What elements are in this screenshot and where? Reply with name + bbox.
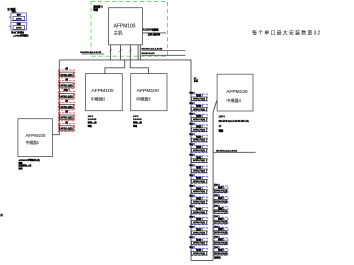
svg-text:中继器1: 中继器1 <box>26 139 40 146</box>
svg-text:AFRD-F1(A): AFRD-F1(A) <box>215 210 227 213</box>
svg-text:2.5-SC20: 2.5-SC20 <box>88 119 97 121</box>
wire: branch to repeater 3 <box>130 60 148 74</box>
svg-text:AFRD-F1(A): AFRD-F1(A) <box>193 108 205 111</box>
blue door module L10 <box>189 183 207 193</box>
repeater U5 AFPM100 中继器1 <box>18 119 53 157</box>
blue door module R1 <box>214 183 228 193</box>
wire: right loop bus up <box>212 112 214 261</box>
blue door module R6 <box>214 235 228 245</box>
svg-text:AFRD-F1(A): AFRD-F1(A) <box>215 241 227 244</box>
blue door module L9 <box>189 173 207 183</box>
svg-text:AFRD: AFRD <box>16 18 22 21</box>
svg-text:AFRD-2(B): AFRD-2(B) <box>60 74 72 77</box>
blue door module L14 <box>189 225 207 235</box>
blue door module L5 <box>189 132 207 142</box>
red door module M2 <box>59 77 75 88</box>
wire label right branch 1 <box>142 48 186 50</box>
svg-text:AFRD-F1(A): AFRD-F1(A) <box>193 242 205 245</box>
repeater U2 AFPM100 中继器2 <box>85 74 122 111</box>
blue door module L4 <box>189 122 207 132</box>
room boundary 消防控制室 (green dashed) <box>91 2 168 57</box>
svg-text:AFRD-F1(A): AFRD-F1(A) <box>193 221 205 224</box>
wire: branch to repeater 2 <box>105 60 125 74</box>
wire: bottom U-turn <box>191 259 213 261</box>
svg-text:1AT-4: 1AT-4 <box>219 115 226 118</box>
svg-text:AFRD-F1(A): AFRD-F1(A) <box>193 149 205 152</box>
feeder to next zone <box>213 150 256 152</box>
svg-text:AFRD-2(B): AFRD-2(B) <box>60 117 72 120</box>
svg-text:AFRD-F1(A): AFRD-F1(A) <box>193 118 205 121</box>
svg-text:中继器3: 中继器3 <box>136 95 151 102</box>
wire label left branch <box>80 52 104 54</box>
repeater U3 AFPM100 中继器3 <box>131 74 167 111</box>
blue door module L3 <box>189 111 207 121</box>
repeater U4 AFPM100 中继器4 notes <box>219 115 250 132</box>
svg-text:AFRD-F1(A): AFRD-F1(A) <box>193 190 205 193</box>
svg-text:AFRD-F1(A): AFRD-F1(A) <box>215 252 227 255</box>
wire: diagonal into repeater 4 <box>213 100 217 112</box>
blue door module L12 <box>189 204 207 214</box>
blue door module L15 <box>189 235 207 245</box>
blue door module L2 <box>189 101 207 111</box>
main unit U1 AFPM100 主机 <box>109 8 143 45</box>
legend stub 1 <box>9 16 11 18</box>
svg-text:AFRD-2(B): AFRD-2(B) <box>60 85 72 88</box>
red door module M4 <box>59 99 75 110</box>
blue door module L13 <box>189 214 207 224</box>
svg-text:AFRD-F1(A): AFRD-F1(A) <box>215 189 227 192</box>
room label <box>92 4 103 11</box>
svg-text:明装: 明装 <box>93 8 98 12</box>
wire: main horizontal bus <box>59 59 191 61</box>
svg-text:AFPM100: AFPM100 <box>26 133 46 139</box>
svg-text:主机: 主机 <box>114 29 123 36</box>
legend note text <box>7 7 16 13</box>
svg-text:AFPM100: AFPM100 <box>226 89 248 95</box>
svg-text:AFRD-2(B): AFRD-2(B) <box>60 106 72 109</box>
svg-text:AFRD-F1(A): AFRD-F1(A) <box>193 252 205 255</box>
svg-text:AFRD-F1(A): AFRD-F1(A) <box>215 231 227 234</box>
blue door module L7 <box>189 153 207 163</box>
repeater U3 AFPM100 中继器3 notes <box>133 115 142 128</box>
legend symbol box 1 <box>11 13 27 21</box>
svg-text:1AT-2: 1AT-2 <box>133 115 139 118</box>
svg-text:AFRD-F1(A): AFRD-F1(A) <box>215 221 227 224</box>
svg-text:AFRD-F1(A): AFRD-F1(A) <box>193 170 205 173</box>
blue door module R7 <box>214 245 228 255</box>
svg-text:中继器2: 中继器2 <box>91 95 106 102</box>
svg-text:AFRD-F1(A): AFRD-F1(A) <box>193 98 205 101</box>
svg-text:每个单口最大安装数量32: 每个单口最大安装数量32 <box>252 29 321 36</box>
svg-text:AFRD-F1(A): AFRD-F1(A) <box>193 159 205 162</box>
svg-text:2.5-SC20: 2.5-SC20 <box>133 119 142 121</box>
svg-text:AFRD-F1(A): AFRD-F1(A) <box>193 200 205 203</box>
svg-text:AFPM100: AFPM100 <box>91 88 114 94</box>
repeater U5 AFPM100 中继器1 notes <box>18 158 41 170</box>
legend symbol box 2 <box>11 22 27 30</box>
wire: left drop to repeater 1 <box>53 60 60 135</box>
blue door module R3 <box>214 204 228 214</box>
wire: left loop bus down <box>190 60 192 261</box>
wire label right branch 2 <box>142 53 186 55</box>
red door module M6 <box>59 120 75 131</box>
svg-text:AFRD-F1(A): AFRD-F1(A) <box>193 180 205 183</box>
svg-text:AFRD-F1(A): AFRD-F1(A) <box>193 139 205 142</box>
red door module M3 <box>59 88 75 99</box>
svg-text:NH-RVS-2x1.5-SC15-WC.CE: NH-RVS-2x1.5-SC15-WC.CE <box>219 121 250 123</box>
svg-text:AFRD-F1(A): AFRD-F1(A) <box>193 231 205 234</box>
blue door module L6 <box>189 142 207 152</box>
blue door module L1 <box>189 91 207 101</box>
svg-text:中继器4: 中继器4 <box>226 97 241 104</box>
svg-text:AFPM100: AFPM100 <box>114 23 136 29</box>
svg-text:AFPM100: AFPM100 <box>137 88 160 94</box>
repeater U4 AFPM100 中继器4 <box>217 74 253 111</box>
conductor-count ticks <box>109 49 131 51</box>
svg-text:AFRD-F1(A): AFRD-F1(A) <box>193 128 205 131</box>
wire stubs under main unit <box>111 45 141 60</box>
blue door module R2 <box>214 193 228 203</box>
svg-text:AFRD-F1(A): AFRD-F1(A) <box>193 211 205 214</box>
legend caption <box>11 30 29 37</box>
corner mark <box>0 214 2 217</box>
svg-text:AFRD-F1(A): AFRD-F1(A) <box>215 200 227 203</box>
repeater U2 AFPM100 中继器2 notes <box>88 115 97 128</box>
blue door module R5 <box>214 224 228 234</box>
blue door module L16 <box>189 245 207 255</box>
red door module M5 <box>59 110 75 121</box>
svg-text:AFRD: AFRD <box>16 27 22 30</box>
svg-text:AFRD-2(B): AFRD-2(B) <box>60 128 72 131</box>
blue door module R4 <box>214 214 228 224</box>
svg-text:AFRD-2(B): AFRD-2(B) <box>60 95 72 98</box>
blue door module L8 <box>189 163 207 173</box>
AC power / comm label <box>142 27 166 36</box>
red door module M1 <box>59 67 75 78</box>
svg-text:1AT-2: 1AT-2 <box>88 115 94 118</box>
blue door module L11 <box>189 194 207 204</box>
bus zone label <box>194 78 199 83</box>
legend stub 2 <box>9 25 11 27</box>
